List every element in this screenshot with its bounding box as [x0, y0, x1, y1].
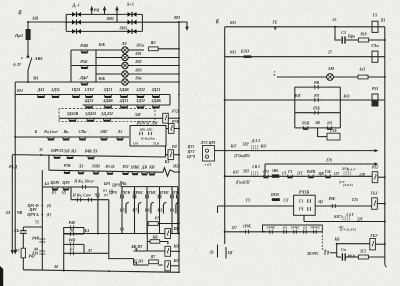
solid contact 5N6 [272, 174, 279, 177]
relay box R4TV [294, 195, 316, 215]
contact 2Д31 [105, 94, 112, 96]
contact Ян [63, 137, 69, 139]
relay row KM wire y=265 [134, 264, 163, 266]
right bus x=384.8 [384, 27, 386, 265]
dangling wire 33 [217, 245, 219, 258]
contact G5E [326, 175, 330, 179]
vertical x=71 [70, 187, 72, 200]
contact 1Д31 [52, 94, 59, 96]
box 1RChE group [263, 225, 323, 232]
switch hook К7 [138, 203, 141, 214]
contact 2Д,432 [104, 118, 111, 120]
contact 2Д43В [69, 118, 76, 120]
wire diode block to M2 [142, 21, 179, 23]
vertical row5-row6 x=50 [48, 155, 50, 170]
relay coil R-second [166, 155, 169, 157]
contact ЦР2 [63, 187, 69, 189]
diode block right vertical [141, 14, 143, 31]
relay row KN wire y=251 [134, 250, 165, 252]
contact H-Kch row [82, 185, 85, 189]
contact 3Д31 [153, 94, 160, 96]
page edge artifact bottom-left [0, 266, 3, 286]
relay coil KV [165, 229, 171, 239]
contact Ц2Р1 [52, 187, 58, 189]
contact row 5 wire y=155 [12, 155, 165, 157]
arrow up terminal b on row1 [104, 9, 106, 14]
contact row 2 wire y=105 [83, 104, 171, 106]
relay box RL70 [130, 126, 166, 147]
arrow up terminal a on row1 [91, 9, 93, 14]
relay coil G5 [372, 198, 378, 210]
diode D1-2 left row2 [72, 20, 76, 25]
vertical x=108.8 [108, 200, 110, 254]
resistor R19 [346, 39, 359, 41]
left bus vertical x=15.2 [14, 82, 16, 250]
K block top rail [121, 186, 178, 188]
fuse Pr1 [27, 22, 29, 29]
contact 3Д4В [153, 105, 160, 107]
contact row 4 wire y=136.6 [15, 136, 129, 138]
relay coil R52 [372, 172, 378, 183]
contact on row 199.7 [88, 198, 91, 202]
contact 1Ц31 [73, 94, 80, 96]
K cell vertical x=172 [171, 187, 173, 234]
contact inside RL70 a [140, 132, 143, 135]
line C y=206 [218, 205, 294, 207]
ladder2 rung4 y=253.3 [64, 252, 84, 254]
terminal box TsU [203, 146, 215, 162]
contact 4Д32 [86, 105, 93, 107]
line 2 y=56.7 [225, 56, 385, 58]
arrow line A2 y=164 [265, 163, 377, 165]
ladder2 rung1 y=227.5 [64, 227, 84, 229]
line G y=257 [337, 256, 342, 258]
RV top rung [295, 86, 341, 88]
fuse PLm [372, 51, 378, 62]
contact 2Д43З [87, 118, 94, 120]
stub to G5E box [318, 128, 327, 137]
contact ЛЗ [78, 171, 84, 173]
contact 2Д4В [121, 94, 128, 96]
resistor Ya7 [149, 260, 159, 264]
capacitor C6 [22, 227, 24, 230]
K cell vertical x=134.5 [134, 187, 136, 234]
K cell vertical x=159.5 [159, 187, 161, 234]
thermal contact KZ zigzag [163, 168, 170, 177]
contact R5E lamp row3 [71, 65, 96, 67]
contact (2) in box [304, 230, 307, 234]
switch AV3 [28, 58, 32, 71]
ladder2 right vertical top [83, 228, 85, 235]
line F y=243.7 to coil G5U [337, 243, 370, 245]
solid bar B43 [272, 198, 280, 201]
wire from node b to diode block, y=22 [28, 21, 66, 23]
switch hook К1 [176, 203, 179, 214]
contact row CR y=187 [42, 186, 98, 188]
switch hook К6 [151, 203, 154, 214]
contact КН [149, 172, 155, 174]
arrow line A y=150.6 [215, 150, 378, 152]
contact РЗ ЗЗ [107, 171, 113, 173]
relay coil KM [165, 261, 171, 271]
vertical x=96 lamp feed [95, 50, 97, 82]
diode D1-1 right row1 [128, 12, 132, 17]
bottom rail [23, 270, 180, 273]
diode block left vertical x=66.2 [65, 14, 67, 31]
lamp L3 row1 [96, 49, 122, 51]
contact 1РЧЕ in box [270, 230, 273, 234]
rung R5Ya [295, 127, 341, 129]
box1 top rail y=227 [23, 226, 42, 228]
fuse R5 half filled [372, 94, 378, 106]
line 4 y=100 [225, 99, 385, 101]
vertical x=71 lamp feed [70, 50, 72, 82]
diode block row3 wire [66, 30, 142, 32]
capacitor C3 [342, 36, 345, 43]
outer left bus vertical x=12.3 [11, 155, 13, 250]
diode block row2 wire [66, 21, 142, 23]
lamp L02 row3 [96, 65, 122, 67]
contact on row 199.7 [77, 198, 80, 202]
K cell vertical x=177.8 [177, 187, 179, 234]
vertical x=97.9 [97, 187, 99, 234]
resistor KV small [147, 241, 150, 243]
resistor R42 vertical [21, 248, 25, 258]
contact Р32 [123, 171, 129, 173]
diode D1-3 left row3 [72, 29, 76, 34]
contact row 1 wire y=94.5 [15, 94, 170, 96]
bus B vertical x=224.7 [224, 27, 226, 244]
contact D4 lamp row5 (dashed) [81, 82, 88, 84]
resistor V12 [346, 256, 358, 258]
contact Р4В ЛЗ [88, 156, 94, 158]
contact (Г) in box [284, 230, 287, 234]
scan specks (noise) [52, 30, 53, 31]
contact 1Д32 [137, 94, 144, 96]
capacitor C4 [342, 253, 345, 260]
wire switch to bus row [27, 70, 29, 83]
vertical x=42.3 left ladder spine [41, 170, 43, 227]
contact ДВ [142, 172, 148, 174]
contact Л2 [117, 137, 123, 139]
contact РЛН [93, 171, 99, 173]
contact 50Г-Н3 [67, 155, 73, 157]
resistor R7 bypass [146, 224, 149, 234]
contact R4V on x=42.3 [41, 227, 43, 270]
diode block row1 wire [66, 13, 142, 15]
right bus M2 vertical x=180 [178, 22, 180, 272]
contact 3Д32 [137, 105, 144, 107]
contact inside RL70 b [149, 132, 152, 135]
resistor R2 [128, 49, 144, 51]
contact L10 on x=42.3 [39, 251, 45, 254]
ladder2 right vertical bottom [83, 244, 85, 253]
junction CR1 CR2 CR4 labels [41, 205, 43, 207]
contact row 3 wire y=117.5 [59, 117, 163, 119]
dashed box rows 3 [59, 109, 155, 122]
relay coil R7V [166, 128, 168, 130]
contact GZ [288, 175, 292, 179]
line 1 y=26.8 [225, 26, 385, 28]
contact 5НГ [101, 137, 107, 139]
RL70 box drop to row5 [165, 146, 167, 157]
contact RL on line4 [315, 98, 318, 102]
contact R4TV [309, 175, 313, 179]
contact 4Д4В [105, 105, 112, 107]
wire rung4 to jog [84, 252, 109, 254]
relay coil RLD [163, 113, 169, 123]
rung R5B [295, 112, 341, 114]
lamp L03 row4 [96, 73, 122, 75]
contact СПн [79, 137, 85, 139]
row1-row2 right vertical [169, 95, 171, 106]
contact 1R9E [246, 230, 249, 234]
row y=199.7 [71, 199, 109, 201]
diode D1-1 left row1 [72, 12, 76, 17]
contact Д41 [38, 94, 45, 96]
contact row 6 wire y=170.4 [49, 170, 163, 172]
dangling wire 6G [225, 247, 227, 259]
line D y=221.5 [303, 215, 305, 221]
ladder2 spine x=63.7 [63, 227, 65, 271]
contact Р7В [64, 170, 70, 172]
dashed drop from box [322, 232, 330, 253]
switch hook К5 [126, 203, 129, 214]
dashed cluster D42 on line A [251, 146, 253, 152]
contact 50РУ23 [54, 155, 60, 157]
jog down x=108.8 [109, 253, 134, 258]
dashed cluster on line B [251, 172, 253, 178]
vertical feed x=133.6 [133, 259, 135, 265]
ground arrow at M2 [179, 22, 187, 27]
contact G75 [264, 175, 268, 179]
ladder2 rung2 y=234 [64, 233, 84, 235]
branch to C3 [335, 27, 341, 40]
contact 1ЛТ2 [86, 94, 93, 96]
contact 1РЧЕ in box [294, 230, 297, 234]
resistor 611 [358, 75, 368, 79]
arrow up terminal c on row2 [116, 9, 118, 22]
RV ladder left vertical [294, 87, 296, 128]
dashed cluster DR2 [343, 172, 345, 178]
line C right of box [315, 205, 372, 207]
contact R4V lamp row1 [71, 49, 96, 51]
line B y=176.3 [225, 175, 372, 177]
K cell vertical x=122 [121, 187, 123, 234]
switch hook К3 [163, 203, 166, 214]
contact Рн,Спн³ [48, 137, 54, 139]
relay coil KN [165, 246, 171, 256]
ladder2 rung3 y=244.4 [64, 243, 84, 245]
contact 4Д31 [121, 105, 128, 107]
contact R0E [332, 204, 335, 208]
dashed cluster on line D [342, 217, 344, 223]
lamp L01 row2 [96, 57, 122, 59]
K cell vertical x=147 [146, 187, 148, 234]
line E y=231.8 [225, 231, 263, 233]
fuse G5 [372, 21, 378, 32]
vertical x=147.3 to row KN [146, 234, 148, 252]
wire fuse to switch [27, 40, 29, 57]
RV ladder right vertical [339, 87, 341, 128]
lamp L0k row5 wire from switch bus [15, 81, 122, 83]
relay row KV wire y=233.5 [64, 233, 165, 235]
contact 1РВЕ [132, 172, 138, 174]
contact ЧРЧЕ in box [314, 230, 317, 234]
